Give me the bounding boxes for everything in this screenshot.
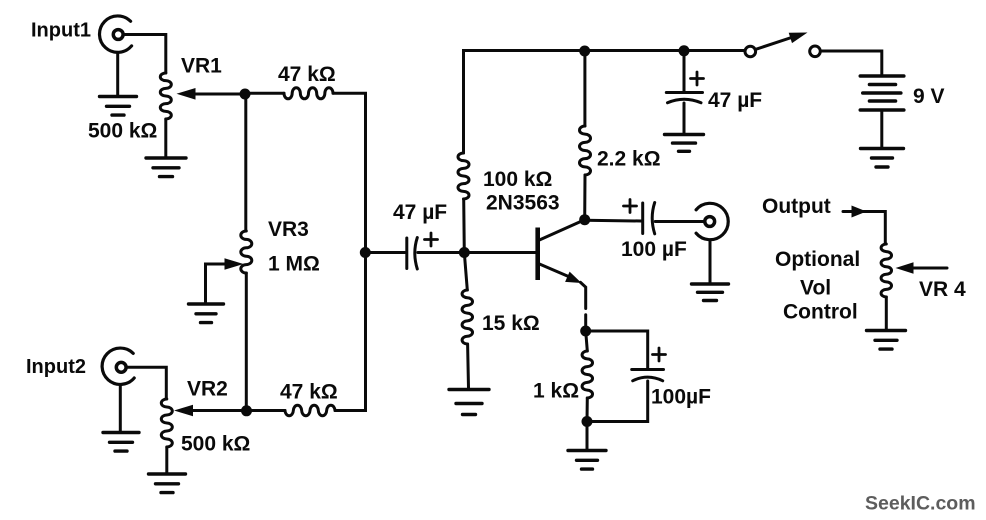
wire J1 to resistor R1: [245, 92, 284, 95]
ground under VR4: [867, 331, 906, 350]
resistor R5 2.2 kΩ body: [579, 126, 590, 175]
wire VR2 bottom to ground: [165, 447, 168, 474]
svg-text:500 kΩ: 500 kΩ: [88, 120, 157, 143]
node junction collector (R5 / C2): [579, 214, 590, 225]
svg-text:Output: Output: [762, 195, 831, 218]
wire VR2 wiper: [188, 409, 247, 412]
wire output tap: [843, 212, 885, 245]
resistor R4 15 kΩ body: [462, 290, 472, 344]
node junction J4 (base / 100k / 15k): [459, 247, 470, 258]
svg-text:2N3563: 2N3563: [486, 192, 560, 215]
label + (C1 polarity): [425, 233, 438, 246]
wire output jack stem: [709, 240, 712, 284]
wire C4 to ground: [683, 103, 686, 134]
wire Q1 emitter lead: [538, 263, 572, 278]
connector J_out (output phono jack): [696, 203, 728, 239]
transistor Q1 2N3563 base bar: [535, 228, 540, 281]
wire VR3 wiper to ground: [206, 264, 232, 302]
ground under VR3 wiper: [189, 304, 224, 323]
wire vertical bus lower half: [335, 253, 366, 411]
svg-text:47 µF: 47 µF: [393, 201, 447, 224]
svg-text:500 kΩ: 500 kΩ: [181, 433, 250, 456]
wire emitter elbow: [581, 282, 586, 308]
svg-text:100 kΩ: 100 kΩ: [483, 168, 552, 191]
arrow VR1 wiper head: [177, 88, 196, 100]
svg-text:47 kΩ: 47 kΩ: [280, 381, 338, 404]
svg-text:VR1: VR1: [181, 55, 222, 78]
switch S1 arm: [756, 36, 798, 50]
arrow VR4 wiper head: [896, 262, 914, 274]
wire R3 bottom to J4: [462, 199, 466, 253]
svg-text:2.2 kΩ: 2.2 kΩ: [597, 148, 661, 171]
wire VR4 bottom to ground: [885, 297, 888, 330]
resistor R2 47 kΩ body: [285, 405, 335, 415]
wire input1 jack to VR1 top: [125, 35, 166, 74]
ground under output jack: [692, 284, 729, 301]
svg-text:VR2: VR2: [187, 378, 228, 401]
svg-text:SeekIC.com: SeekIC.com: [865, 493, 976, 515]
arrow output tap head: [852, 206, 867, 218]
wire top rail: [464, 51, 745, 154]
potentiometer VR4 body: [881, 244, 891, 297]
wire J3 to resistor R2: [247, 409, 286, 412]
wire R4 bottom to ground: [466, 344, 470, 388]
wire C3 bottom to J6: [587, 381, 648, 422]
wire VR1 wiper: [190, 93, 245, 96]
ground under Input1 jack: [100, 97, 137, 116]
wire input2 jack to VR2 top: [128, 367, 167, 399]
label + (C2 polarity): [624, 200, 637, 213]
wire VR3 bottom to J3: [245, 273, 248, 411]
wire J6 to ground: [586, 422, 589, 450]
svg-text:1 kΩ: 1 kΩ: [533, 380, 579, 403]
wire J5 to C3 top: [586, 331, 648, 368]
connector J_in2 (Input2 phono jack): [102, 348, 134, 384]
wire base J4 to Q1: [464, 251, 536, 254]
node junction J5 (emitter / 1k / C3): [580, 326, 591, 337]
svg-text:1 MΩ: 1 MΩ: [268, 253, 320, 276]
battery B1 9V plates: [860, 76, 904, 110]
svg-text:100µF: 100µF: [651, 386, 711, 409]
wire R6 bottom to J6: [586, 398, 589, 422]
switch S1 throw contact: [810, 46, 821, 57]
svg-text:Input1: Input1: [31, 20, 91, 42]
arrow VR2 wiper head: [174, 405, 193, 417]
ground under VR1: [146, 158, 186, 177]
ground under J6: [568, 451, 606, 470]
svg-text:Control: Control: [783, 301, 858, 324]
resistor R6 1 kΩ body: [582, 351, 592, 398]
wire J5 to R6: [586, 331, 588, 351]
wire Q1 collector lead: [538, 220, 584, 241]
wire R5 bottom to collector node: [583, 175, 586, 220]
label + (C3 polarity): [653, 348, 666, 361]
svg-text:100 µF: 100 µF: [621, 238, 687, 261]
wire J1 to VR3 top: [244, 94, 247, 231]
label + (C4 polarity): [691, 72, 704, 85]
arrow switch arm head: [789, 33, 808, 44]
node junction on rail (C4 top): [679, 45, 690, 56]
svg-text:Vol: Vol: [800, 277, 831, 300]
svg-text:VR3: VR3: [268, 218, 309, 241]
potentiometer VR1 body: [160, 73, 171, 119]
svg-text:VR 4: VR 4: [919, 278, 966, 301]
wire J2 to capacitor C1: [365, 251, 405, 254]
wire switch to battery: [821, 51, 882, 75]
node junction J6 (1k / C3 bottom): [582, 416, 593, 427]
ground under Input2 jack: [103, 433, 139, 452]
capacitor C3 100 µF plates: [632, 370, 664, 381]
svg-text:47 µF: 47 µF: [708, 89, 762, 112]
node junction J1 (VR1 wiper / R1 / VR3 top): [240, 89, 251, 100]
svg-text:Optional: Optional: [775, 248, 860, 271]
resistor R3 100 kΩ body: [458, 153, 469, 199]
capacitor C2 100 µF plates: [643, 203, 655, 234]
arrow VR3 wiper head: [225, 258, 244, 270]
wire R1 to vertical bus: [333, 93, 366, 252]
svg-text:15 kΩ: 15 kΩ: [482, 312, 540, 335]
svg-text:47 kΩ: 47 kΩ: [278, 63, 336, 86]
potentiometer VR2 body: [161, 399, 172, 447]
ground under C4: [665, 135, 704, 152]
wire C2 to output jack: [655, 220, 704, 223]
svg-text:9 V: 9 V: [913, 85, 945, 108]
potentiometer VR3 body: [241, 231, 252, 273]
wire VR1 bottom to ground: [164, 119, 167, 158]
node junction on rail (2.2k top): [579, 46, 590, 57]
wire battery to ground: [880, 110, 883, 148]
ground under battery: [861, 149, 904, 168]
node junction J3 (VR2 wiper / R2 / VR3 bottom): [241, 405, 252, 416]
wire rail to R5: [583, 51, 586, 126]
capacitor C1 47 µF plates: [407, 238, 418, 270]
arrow Q1 emitter head: [565, 272, 581, 283]
wire J4 to 15k: [464, 253, 467, 291]
connector J_in1 (Input1 phono jack): [100, 16, 132, 52]
wire rail to C4: [683, 51, 686, 91]
wire collector to C2: [585, 219, 641, 223]
ground under R4: [449, 390, 489, 415]
resistor R1 47 kΩ body: [284, 88, 333, 99]
wire emitter dash segment: [584, 315, 587, 327]
wire input2 jack stem: [119, 385, 122, 433]
ground under VR2: [149, 474, 186, 493]
svg-text:Input2: Input2: [26, 356, 86, 378]
wire input1 jack stem: [116, 52, 119, 96]
wire VR4 wiper: [906, 267, 947, 270]
switch S1 pole contact: [745, 46, 756, 57]
wire C1 to base node J4: [418, 251, 464, 254]
node junction J2 (bus / C1): [360, 247, 371, 258]
capacitor C4 47 µF plates: [666, 93, 702, 103]
